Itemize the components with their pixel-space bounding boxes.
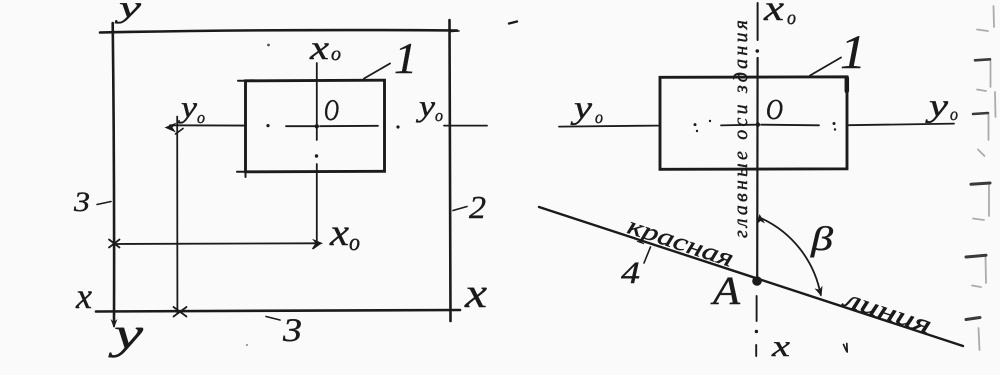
svg-text:у: у <box>108 309 144 358</box>
svg-text:О: О <box>766 94 783 126</box>
svg-text:о: о <box>950 104 958 124</box>
svg-text:у: у <box>925 87 949 123</box>
svg-text:1: 1 <box>840 26 866 79</box>
svg-text:красная: красная <box>624 213 737 273</box>
svg-text:о: о <box>197 108 205 127</box>
svg-text:о: о <box>331 43 341 65</box>
svg-text:линия: линия <box>838 285 935 340</box>
svg-text:о: о <box>595 107 603 127</box>
svg-text:у: у <box>177 91 197 124</box>
svg-text:3: 3 <box>282 313 302 349</box>
svg-text:у: у <box>570 89 593 125</box>
svg-text:у: у <box>114 0 142 24</box>
svg-text:х: х <box>771 330 791 363</box>
svg-text:х: х <box>75 276 92 316</box>
svg-text:х: х <box>464 271 488 317</box>
svg-text:х: х <box>329 212 349 254</box>
svg-text:о: о <box>349 230 360 256</box>
svg-text:β: β <box>810 221 833 258</box>
svg-text:у: у <box>415 90 435 123</box>
svg-text:х: х <box>763 0 784 28</box>
svg-text:А: А <box>710 268 741 313</box>
svg-text:3: 3 <box>73 187 90 218</box>
svg-text:главные оси здания: главные оси здания <box>730 20 752 238</box>
svg-text:2: 2 <box>469 189 486 225</box>
svg-text:о: о <box>787 7 796 29</box>
svg-text:х: х <box>309 30 329 67</box>
svg-text:О: О <box>324 94 339 127</box>
svg-text:о: о <box>435 106 443 125</box>
svg-text:1: 1 <box>394 34 417 83</box>
svg-text:4: 4 <box>621 255 640 290</box>
